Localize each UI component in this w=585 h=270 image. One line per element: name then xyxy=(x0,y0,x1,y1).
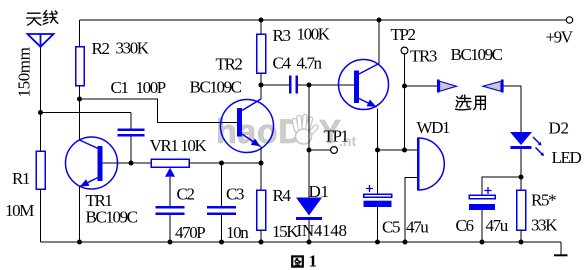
svg-text:TR3: TR3 xyxy=(410,47,437,66)
node R5 rail xyxy=(519,240,524,245)
capacitor C5 xyxy=(364,150,392,242)
svg-text:R2: R2 xyxy=(92,39,110,58)
node R4 rail xyxy=(259,240,264,245)
svg-text:VR1 10K: VR1 10K xyxy=(150,136,208,155)
node R3 top junction xyxy=(259,18,264,23)
svg-text:BC109C: BC109C xyxy=(451,45,503,64)
wire TP1 stub xyxy=(309,149,330,151)
wire junction down to WD1 xyxy=(404,86,406,150)
wire junction to optional diode xyxy=(405,85,438,87)
resistor R3 xyxy=(257,20,266,85)
label figure 1 (Chinese) xyxy=(292,252,316,270)
svg-text:R4: R4 xyxy=(273,186,292,205)
svg-text:47u: 47u xyxy=(406,218,429,237)
svg-text:D2: D2 xyxy=(549,119,569,138)
wire antenna stem xyxy=(40,47,42,113)
svg-text:TP2: TP2 xyxy=(391,25,416,44)
svg-text:4.7n: 4.7n xyxy=(297,54,323,73)
test point TP1 xyxy=(331,147,338,154)
svg-text:1: 1 xyxy=(309,252,317,270)
diode D1 xyxy=(296,85,322,242)
svg-text:+9V: +9V xyxy=(546,28,574,47)
label antenna (Chinese) xyxy=(27,11,58,26)
node C4/TR3 base/D1 junction xyxy=(307,83,312,88)
svg-text:WD1: WD1 xyxy=(417,118,451,137)
node TR2 emitter/R4 junction xyxy=(259,161,264,166)
LED D2 xyxy=(510,132,544,190)
capacitor C3 xyxy=(207,163,236,242)
svg-text:TP1: TP1 xyxy=(324,127,349,146)
svg-text:R1: R1 xyxy=(12,169,30,188)
svg-text:BC109C: BC109C xyxy=(86,208,138,227)
watermark haoDIY xyxy=(216,113,356,151)
wire diode to LED branch xyxy=(504,86,521,132)
resistor R2 xyxy=(76,20,85,99)
resistor R1 xyxy=(36,113,45,243)
svg-text:C3: C3 xyxy=(226,185,244,204)
antenna xyxy=(28,34,54,47)
test point TP2 xyxy=(401,47,408,54)
capacitor C6 xyxy=(469,187,495,242)
transistor TR2 xyxy=(221,85,274,163)
transistor TR3 xyxy=(339,20,389,150)
svg-text:100P: 100P xyxy=(136,78,166,97)
svg-text:C1: C1 xyxy=(111,78,129,97)
node C6 rail xyxy=(480,240,485,245)
node C3 top junction xyxy=(219,161,224,166)
resistor R4 xyxy=(257,163,266,242)
svg-text:330K: 330K xyxy=(116,39,150,58)
label optional (Chinese) xyxy=(456,95,486,110)
transistor TR1 xyxy=(66,99,132,242)
svg-text:33K: 33K xyxy=(531,216,558,235)
node TP2/diodes junction xyxy=(402,84,407,89)
wire bottom rail xyxy=(41,241,562,243)
svg-text:C6: C6 xyxy=(456,216,474,235)
node TP1 stub junction xyxy=(307,148,312,153)
wire emitter node to WD1 xyxy=(378,149,418,151)
capacitor C4 xyxy=(261,76,354,94)
power terminal +9V xyxy=(566,17,572,23)
svg-text:C4: C4 xyxy=(273,54,292,73)
node C1/TR1 base/VR1 junction xyxy=(129,161,134,166)
capacitor C2 xyxy=(156,207,185,242)
node R2/TR1 collector junction xyxy=(77,97,82,102)
node TR1 emitter rail xyxy=(77,240,82,245)
capacitor C1 xyxy=(118,113,145,164)
svg-text:BC109C: BC109C xyxy=(190,78,242,97)
node WD1 top lead junction xyxy=(402,148,407,153)
svg-text:10n: 10n xyxy=(226,223,249,242)
node antenna junction xyxy=(38,110,43,115)
node R3/TR2 collector/C4 junction xyxy=(259,83,264,88)
node C2 rail xyxy=(168,240,173,245)
svg-text:LED: LED xyxy=(552,148,582,167)
svg-text:C5: C5 xyxy=(382,218,400,237)
svg-text:D1: D1 xyxy=(309,182,329,201)
resistor R5 xyxy=(517,190,526,242)
node LED/R5/C6 junction xyxy=(519,175,524,180)
svg-text:IN4148: IN4148 xyxy=(297,221,347,240)
svg-text:15K: 15K xyxy=(272,222,299,241)
node WD1 rail xyxy=(403,240,408,245)
wire C6 tap xyxy=(482,177,521,195)
optional diode right xyxy=(483,80,504,93)
ground xyxy=(554,242,568,255)
wire antenna to C1 xyxy=(41,112,132,114)
node C5 rail xyxy=(375,240,380,245)
buzzer WD1 xyxy=(405,138,444,243)
svg-text:R5*: R5* xyxy=(531,191,556,210)
node D1 rail xyxy=(307,240,312,245)
wire TR1 collector to TR2 base xyxy=(80,99,238,123)
svg-text:470P: 470P xyxy=(175,223,205,242)
potentiometer VR1 xyxy=(131,159,261,206)
svg-text:C2: C2 xyxy=(177,185,195,204)
svg-text:100K: 100K xyxy=(297,25,331,44)
label 150mm xyxy=(15,47,34,97)
node C3 rail xyxy=(219,240,224,245)
svg-text:47u: 47u xyxy=(486,216,509,235)
svg-text:R3: R3 xyxy=(273,26,291,45)
node TR3 collector rail junction xyxy=(377,18,382,23)
node TR3 emitter/C5 junction xyxy=(375,148,380,153)
optional diode left xyxy=(437,80,457,93)
svg-text:150mm: 150mm xyxy=(15,47,34,97)
svg-text:10M: 10M xyxy=(5,201,34,220)
svg-text:TR2: TR2 xyxy=(216,55,243,74)
wire TP2 down xyxy=(404,54,406,86)
wire top rail +9V xyxy=(80,19,567,21)
